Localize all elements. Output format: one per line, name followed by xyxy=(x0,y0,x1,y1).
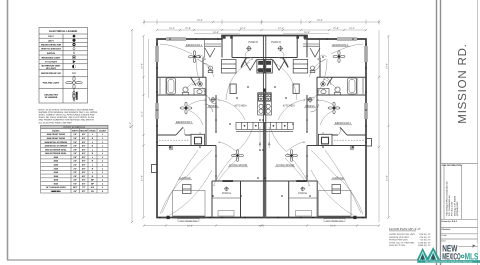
svg-text:DOORS: DOORS xyxy=(52,130,60,133)
kitchen back counter xyxy=(236,122,264,131)
patio lights xyxy=(224,186,305,191)
svg-text:PORCH PER UNIT: PORCH PER UNIT xyxy=(389,239,408,242)
patio labels xyxy=(222,192,307,195)
logo wordmark xyxy=(441,243,477,260)
svg-text:LIVING ROOM: LIVING ROOM xyxy=(276,164,295,167)
svg-text:MEXICO: MEXICO xyxy=(442,251,460,261)
exterior walls xyxy=(157,36,366,218)
smoke detector xyxy=(350,146,354,150)
svg-text:SHOWN FOR GENERAL REFERENCE ON: SHOWN FOR GENERAL REFERENCE ONLY. ALL WO… xyxy=(39,111,98,114)
svg-text:SHALL COMPLY WITH ALL APPLICAB: SHALL COMPLY WITH ALL APPLICABLE CODES A… xyxy=(39,114,95,117)
garage door headers xyxy=(173,191,352,217)
patio steps xyxy=(218,211,312,217)
svg-text:21'-4": 21'-4" xyxy=(386,175,389,181)
svg-text:6'8": 6'8" xyxy=(82,137,86,140)
door swings xyxy=(192,63,216,112)
svg-text:6'8": 6'8" xyxy=(82,175,86,178)
flag mark xyxy=(473,245,476,248)
svg-text:AND POWER COMPANY FOR SERVICE: AND POWER COMPANY FOR SERVICE AND METER xyxy=(39,119,95,122)
svg-text:12'-4": 12'-4" xyxy=(240,27,246,30)
right unit xyxy=(307,58,366,182)
bifold closet doors xyxy=(244,60,285,70)
svg-text:5'0": 5'0" xyxy=(82,190,86,193)
svg-text:11'-0": 11'-0" xyxy=(141,111,144,117)
svg-text:W/ HANGER: W/ HANGER xyxy=(45,96,58,99)
svg-text:BEDROOM 1: BEDROOM 1 xyxy=(332,44,349,47)
electrical notes text xyxy=(39,109,98,125)
bed1 bifold closets near center xyxy=(205,48,320,57)
svg-text:16'0": 16'0" xyxy=(73,186,78,189)
svg-text:2'8": 2'8" xyxy=(73,152,77,155)
svg-text:MLS: MLS xyxy=(465,251,479,261)
svg-text:12'-4": 12'-4" xyxy=(278,27,284,30)
svg-text:1319 SQ. FT.: 1319 SQ. FT. xyxy=(418,241,431,244)
sliding glass doors xyxy=(223,180,234,182)
svg-text:2638 SQ. FT.: 2638 SQ. FT. xyxy=(418,244,431,247)
svg-text:6'8": 6'8" xyxy=(82,133,86,136)
svg-text:2'4": 2'4" xyxy=(73,163,77,166)
svg-text:DUPLEX TOTAL: DUPLEX TOTAL xyxy=(389,244,406,247)
svg-text:6'8": 6'8" xyxy=(82,182,86,185)
svg-text:ELECTRICAL LEGEND: ELECTRICAL LEGEND xyxy=(49,30,77,33)
living room fans xyxy=(232,150,244,162)
svg-text:276 SQ. FT.: 276 SQ. FT. xyxy=(419,236,431,239)
svg-text:MISSION RD.: MISSION RD. xyxy=(457,43,469,123)
svg-text:16'-0": 16'-0" xyxy=(187,224,193,227)
title block right edge xyxy=(477,0,479,265)
wiring arcs xyxy=(160,44,252,215)
svg-text:6'8": 6'8" xyxy=(82,141,86,144)
svg-text:S: S xyxy=(73,51,75,55)
porch labels xyxy=(248,41,281,44)
dining light xyxy=(307,97,312,102)
porch structure xyxy=(222,36,307,58)
door schedule table xyxy=(41,125,108,128)
svg-text:LIVING SPACE PER UNIT: LIVING SPACE PER UNIT xyxy=(389,233,416,236)
closet hatch xyxy=(334,139,364,141)
svg-text:220 V: 220 V xyxy=(48,39,54,42)
kitchen labels xyxy=(235,105,295,108)
svg-text:VENT TO EXHAUST: VENT TO EXHAUST xyxy=(41,48,62,51)
svg-text:Scale:: Scale: xyxy=(442,234,448,237)
legend symbols xyxy=(66,35,83,102)
svg-text:LIVING ROOM: LIVING ROOM xyxy=(229,164,248,167)
door swings xyxy=(307,63,331,112)
svg-text:2868 EXTERIOR GRDL: 2868 EXTERIOR GRDL xyxy=(45,148,67,151)
svg-text:SWITCH: SWITCH xyxy=(47,52,56,55)
svg-text:WATER PROOF GFI: WATER PROOF GFI xyxy=(41,72,61,75)
title block left double line xyxy=(436,0,438,265)
front doors xyxy=(241,58,288,68)
svg-text:6'8": 6'8" xyxy=(82,145,86,148)
svg-text:6'8": 6'8" xyxy=(82,152,86,155)
svg-text:6'8": 6'8" xyxy=(82,163,86,166)
svg-text:SG: SG xyxy=(91,190,94,193)
bathroom fixtures xyxy=(160,66,213,95)
svg-text:2'8": 2'8" xyxy=(73,148,77,151)
svg-text:DINING: DINING xyxy=(208,105,217,108)
svg-text:110 V: 110 V xyxy=(48,35,54,38)
left unit xyxy=(157,58,216,182)
svg-text:2'8": 2'8" xyxy=(73,141,77,144)
svg-text:2868 METAL EXTERIOR: 2868 METAL EXTERIOR xyxy=(45,141,68,144)
porch posts xyxy=(223,35,306,38)
meter box on left wall xyxy=(152,165,158,173)
svg-text:TOTAL SQ. FT. PER UNIT: TOTAL SQ. FT. PER UNIT xyxy=(389,241,415,244)
svg-text:PORCH: PORCH xyxy=(298,192,307,195)
svg-text:6'8": 6'8" xyxy=(82,179,86,182)
svg-text:PORCH: PORCH xyxy=(248,41,258,44)
washer dryer stacks xyxy=(257,60,264,74)
svg-text:GARAGE: GARAGE xyxy=(332,177,344,180)
room labels xyxy=(276,44,352,180)
svg-text:RECESSED LIGHT: RECESSED LIGHT xyxy=(42,56,61,59)
svg-text:6'8": 6'8" xyxy=(82,171,86,174)
svg-text:12'-6": 12'-6" xyxy=(141,63,144,69)
svg-text:KITCHEN: KITCHEN xyxy=(235,105,247,108)
svg-text:16'-6": 16'-6" xyxy=(213,31,219,34)
entry cabinets xyxy=(222,60,308,74)
party wall xyxy=(263,36,265,130)
svg-text:6'8": 6'8" xyxy=(82,148,86,151)
fridge boxes xyxy=(230,84,236,94)
svg-text:2868: 2868 xyxy=(243,57,247,60)
svg-text:GARAGE: GARAGE xyxy=(179,177,191,180)
outlets xyxy=(156,38,261,218)
svg-text:16'x7' Garage Door: 16'x7' Garage Door xyxy=(180,219,198,222)
ceiling fan xyxy=(333,51,345,63)
svg-text:2'6": 2'6" xyxy=(73,160,77,163)
svg-text:2'8": 2'8" xyxy=(73,145,77,148)
svg-text:FAN AND LIGHT: FAN AND LIGHT xyxy=(43,82,60,85)
svg-text:4'0": 4'0" xyxy=(73,179,77,182)
title block horizontal dividers xyxy=(441,164,478,247)
svg-text:NOTE: ELECTRICAL SYSTEM AND: NOTE: ELECTRICAL SYSTEM AND LOCATIONS AR… xyxy=(39,109,95,112)
svg-text:2868 EXTERIOR GRDL: 2868 EXTERIOR GRDL xyxy=(45,152,67,155)
svg-text:16'-0": 16'-0" xyxy=(330,224,336,227)
closet shelves bed1 xyxy=(205,39,320,58)
wiring arcs xyxy=(271,44,363,215)
svg-text:16'-6": 16'-6" xyxy=(304,31,310,34)
floor plan dimension lines xyxy=(132,20,389,226)
water heater platform xyxy=(319,134,333,145)
svg-text:N/A: N/A xyxy=(91,186,95,189)
svg-text:GFI: GFI xyxy=(72,72,77,75)
svg-text:GARAGE PER UNIT: GARAGE PER UNIT xyxy=(389,236,410,239)
svg-text:2'8": 2'8" xyxy=(73,137,77,140)
ceiling fan xyxy=(189,51,201,63)
svg-text:2868 METAL EXTERIOR: 2868 METAL EXTERIOR xyxy=(45,145,68,148)
garage door xyxy=(318,216,351,219)
svg-text:6'8": 6'8" xyxy=(82,167,86,170)
svg-text:ALL ELECTRIC PANEL 200 AMP.: ALL ELECTRIC PANEL 200 AMP. xyxy=(39,121,73,124)
svg-text:DINING: DINING xyxy=(305,105,314,108)
svg-text:DOOR SCHEDULE: DOOR SCHEDULE xyxy=(63,126,85,129)
svg-text:21'-8": 21'-8" xyxy=(185,27,191,30)
dining light xyxy=(210,97,215,102)
svg-text:10'-4": 10'-4" xyxy=(169,27,175,30)
closet hatch xyxy=(159,139,189,141)
svg-text:BEDROOM 1: BEDROOM 1 xyxy=(186,44,203,47)
svg-text:5'0": 5'0" xyxy=(73,182,77,185)
svg-text:21'-8": 21'-8" xyxy=(333,27,339,30)
outlets xyxy=(262,38,367,218)
svg-text:42'-0": 42'-0" xyxy=(317,19,323,22)
sheet left border xyxy=(7,0,9,260)
room labels xyxy=(176,44,248,180)
svg-text:Drawn by: R.R.C.: Drawn by: R.R.C. xyxy=(442,220,459,223)
svg-text:KITCHEN: KITCHEN xyxy=(283,105,295,108)
svg-text:16'7 GARAGE DOOR: 16'7 GARAGE DOOR xyxy=(46,186,66,189)
svg-text:(575)546-0000: (575)546-0000 xyxy=(456,201,459,216)
sheet bottom border xyxy=(7,259,420,261)
garage panels xyxy=(183,185,341,194)
svg-text:2868 FRONT DOOR: 2868 FRONT DOOR xyxy=(47,137,66,140)
rear patios xyxy=(212,181,317,218)
svg-text:64 SQ. FT.: 64 SQ. FT. xyxy=(421,239,432,242)
svg-text:12'-6": 12'-6" xyxy=(386,63,389,69)
porch lights xyxy=(246,46,283,51)
svg-text:BEDROOM 2: BEDROOM 2 xyxy=(335,122,352,125)
svg-text:PORCH: PORCH xyxy=(271,41,281,44)
svg-text:2'0": 2'0" xyxy=(73,175,77,178)
svg-text:2868: 2868 xyxy=(283,57,287,60)
svg-text:HINGE: HINGE xyxy=(89,130,96,133)
interior leader lines xyxy=(259,127,270,148)
svg-text:BEDROOM 2: BEDROOM 2 xyxy=(176,121,193,124)
kitchen fixtures xyxy=(258,93,265,115)
svg-text:This Design & Plan Constructio: This Design & Plan Construction by: xyxy=(446,181,449,216)
svg-text:10'-4": 10'-4" xyxy=(349,27,355,30)
svg-text:979 SQ. FT.: 979 SQ. FT. xyxy=(419,233,431,236)
electrical legend table xyxy=(39,28,88,104)
svg-text:SMOKE DETECTOR: SMOKE DETECTOR xyxy=(41,44,62,47)
svg-text:THE COMBINED NETWORK OF NEW ME: THE COMBINED NETWORK OF NEW MEXICO REALT… xyxy=(425,260,473,263)
garage door xyxy=(173,216,206,219)
svg-text:W/ LIGHT: W/ LIGHT xyxy=(46,67,56,70)
teal banner xyxy=(417,260,480,263)
svg-text:Deming, N.M. 88030: Deming, N.M. 88030 xyxy=(453,195,456,216)
svg-text:6'8": 6'8" xyxy=(82,156,86,159)
bathroom fixtures xyxy=(310,66,363,95)
svg-text:Checked:: Checked: xyxy=(442,228,451,231)
svg-text:4050 SG: 4050 SG xyxy=(52,190,60,193)
svg-text:21'-4": 21'-4" xyxy=(141,175,144,181)
svg-text:HANGER: HANGER xyxy=(76,91,79,100)
title block labels xyxy=(442,164,463,242)
windows xyxy=(157,39,186,119)
party wall junction dot xyxy=(263,89,266,92)
svg-text:4'0": 4'0" xyxy=(73,190,77,193)
svg-text:21'-0": 21'-0" xyxy=(259,224,265,227)
svg-text:PORCH: PORCH xyxy=(222,192,231,195)
svg-text:COUNT: COUNT xyxy=(99,130,107,133)
water heater platform xyxy=(191,134,205,145)
svg-text:R.R. Construction Inc.: R.R. Construction Inc. xyxy=(448,194,451,216)
windows xyxy=(337,39,366,119)
svg-text:2'4": 2'4" xyxy=(73,167,77,170)
svg-text:2'6": 2'6" xyxy=(73,156,77,159)
svg-text:2'8": 2'8" xyxy=(73,133,77,136)
svg-text:2868 FRONT DOOR: 2868 FRONT DOOR xyxy=(47,133,66,136)
svg-text:JOB INFORMATION: JOB INFORMATION xyxy=(442,164,463,167)
svg-text:TV OUTLET: TV OUTLET xyxy=(45,61,58,64)
builder info rotated text xyxy=(446,181,459,216)
svg-text:P.O. Box 1234: P.O. Box 1234 xyxy=(451,201,454,216)
svg-text:42'-0": 42'-0" xyxy=(197,19,203,22)
svg-text:7'0": 7'0" xyxy=(82,186,86,189)
svg-text:2'0": 2'0" xyxy=(73,171,77,174)
svg-text:WIDTH: WIDTH xyxy=(72,130,79,133)
svg-text:6'8": 6'8" xyxy=(82,160,86,163)
svg-text:HEIGHT: HEIGHT xyxy=(80,130,88,133)
NEW MEXICO MLS logo mountains xyxy=(417,247,440,260)
form line over logo area xyxy=(459,246,478,248)
svg-text:SHALL BE FIELD VERIFIED. SEE: SHALL BE FIELD VERIFIED. SEE ELECTRICAL … xyxy=(39,116,95,119)
svg-text:47'-0": 47'-0" xyxy=(129,122,132,128)
smoke detector xyxy=(169,146,173,150)
svg-text:FLOOR PLAN 1/8"=1'-0": FLOOR PLAN 1/8"=1'-0" xyxy=(389,227,421,231)
svg-text:16'x7' Garage Door: 16'x7' Garage Door xyxy=(326,219,344,222)
svg-text:Date:: Date: xyxy=(442,239,447,242)
